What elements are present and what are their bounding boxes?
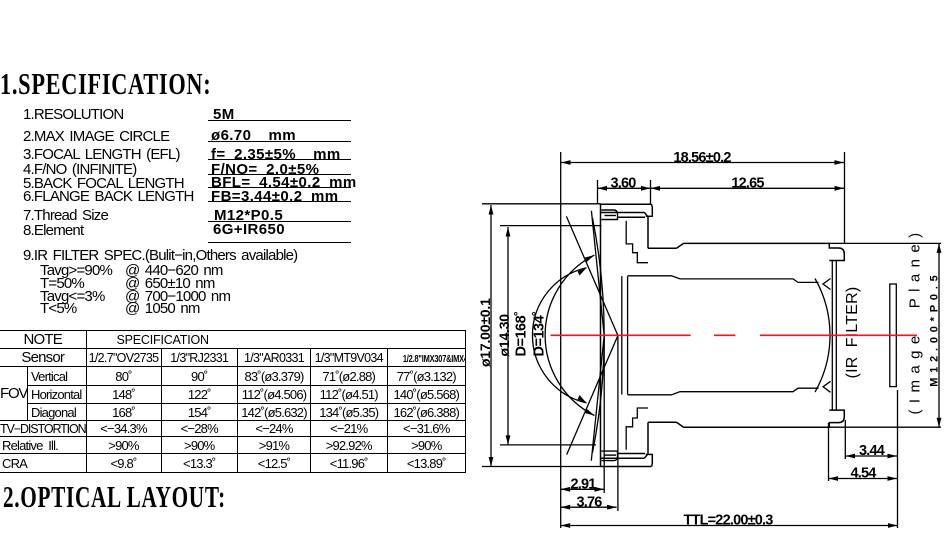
dim TTL=22.00±0.3 [561,513,898,529]
rear lens element surface [815,279,830,393]
dim 12.65 [651,176,845,192]
svg-text:ø14.30: ø14.30 [496,314,512,357]
dim 3.44 [846,443,898,459]
spec list labels [23,106,123,123]
svg-text:D=168˚: D=168˚ [514,312,530,357]
svg-text:18.56±0.2: 18.56±0.2 [673,150,731,166]
dim 4.54 [829,466,898,482]
svg-text:4.54: 4.54 [850,466,876,482]
dim 18.56±0.2 [561,150,844,166]
angle arc D=134 [545,255,594,415]
flange inner staircase top [626,221,648,263]
svg-text:(Image Plane): (Image Plane) [907,227,924,415]
svg-text:TTL=22.00±0.3: TTL=22.00±0.3 [683,513,773,529]
value underlines [208,120,351,121]
front claw top [602,210,618,220]
extension line rear vertex [828,423,830,481]
flange inner staircase bottom [626,408,648,450]
extension line filter holder face [844,420,846,459]
flange outline [601,204,653,466]
extension line barrel right end [844,152,846,243]
svg-text:2.91: 2.91 [570,477,596,493]
centerline [551,334,917,336]
extension line flange right [650,180,652,204]
wave washer bottom [823,381,831,392]
svg-text:3.44: 3.44 [859,443,885,459]
section title 2 [3,479,226,515]
spec list values [213,106,235,123]
extension line image plane [897,390,899,528]
extension line stop plane [617,336,619,512]
wave washer top [823,279,831,290]
svg-text:ø17.00±0.1: ø17.00±0.1 [477,298,493,367]
barrel outline [648,243,844,427]
dim 3.76 [561,494,617,510]
svg-text:M12.00*P0.5: M12.00*P0.5 [929,270,941,386]
image plane slab [890,284,897,387]
svg-text:3.76: 3.76 [576,494,602,510]
svg-text:12.65: 12.65 [731,176,764,192]
svg-text:3.60: 3.60 [610,176,636,192]
front claw bottom [602,451,618,461]
dim 3.60 [598,176,651,192]
dim M12.00*P0.5 [830,243,941,427]
dome inner surface [593,218,605,453]
dim ø14.30 [496,226,602,445]
extension line flange face [597,180,599,204]
section title 1 [0,66,211,102]
barrel inner bore upper [628,276,819,283]
dim ø17.00±0.1 [477,204,600,467]
IR filter note [23,247,297,264]
extension line front vertex [560,152,562,528]
sensor spec table [0,330,466,473]
lens element 2 edges [621,276,623,394]
extension line dome inner vertex [603,335,605,493]
barrel inner bore lower [628,388,819,395]
dim 2.91 [561,477,604,493]
IR filter slab [832,261,836,411]
svg-text:D=134˚: D=134˚ [531,312,547,357]
svg-text:(IR FILTER): (IR FILTER) [844,287,861,379]
angle arc D=168 [532,268,586,403]
FOV chevron 168 [591,211,604,461]
FOV chevron 134 [566,216,618,454]
